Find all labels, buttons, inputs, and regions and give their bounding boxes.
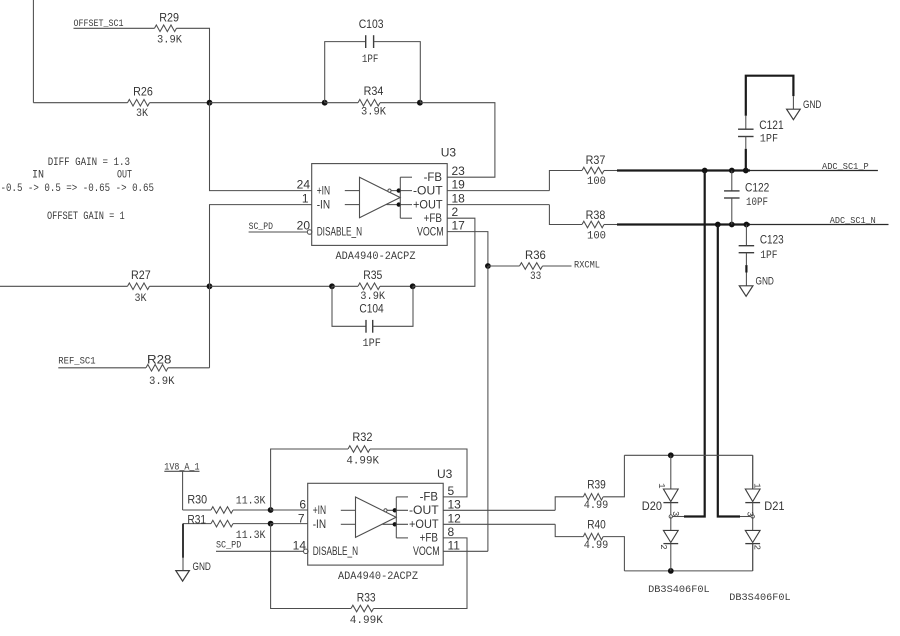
svg-text:7: 7: [298, 511, 305, 525]
wire R32 to -FB pin 5: [370, 449, 467, 497]
wire REF_SC1 to R28: [58, 367, 146, 369]
svg-text:4.99K: 4.99K: [346, 456, 379, 468]
svg-text:1: 1: [752, 483, 762, 488]
wire ADC_SC1_P bold: [617, 169, 750, 171]
wire R29 to node: [177, 28, 210, 102]
svg-text:R39: R39: [587, 478, 606, 492]
resistor R33: [351, 605, 374, 612]
svg-text:3.9K: 3.9K: [361, 107, 386, 119]
wire to R40: [555, 524, 583, 536]
lead to GND: [745, 273, 747, 286]
svg-text:R32: R32: [352, 430, 372, 444]
svg-text:3K: 3K: [136, 108, 148, 120]
wire: [604, 170, 617, 172]
svg-text:1PF: 1PF: [362, 54, 379, 66]
lead C123 bottom: [745, 253, 747, 265]
svg-text:C121: C121: [759, 118, 784, 132]
svg-text:RXCML: RXCML: [574, 261, 600, 272]
svg-text:-FB: -FB: [424, 172, 443, 184]
junction pin7 node: [268, 521, 274, 527]
svg-text:+OUT: +OUT: [413, 199, 443, 211]
junction N / C123: [744, 222, 750, 228]
wire to R31: [183, 523, 211, 525]
wire bottom rail: [624, 570, 752, 572]
junction pin6 node: [268, 507, 274, 513]
resistor R28: [146, 365, 168, 372]
junction top rail / D20: [668, 452, 674, 458]
wire: [380, 102, 420, 104]
svg-text:-OUT: -OUT: [409, 505, 439, 517]
wire R33 to +FB pin 8: [374, 538, 468, 609]
svg-text:2: 2: [658, 544, 668, 549]
wire node to +IN pin 6: [271, 509, 308, 511]
resistor R31: [211, 520, 233, 527]
svg-text:3K: 3K: [135, 293, 147, 305]
svg-text:ADC_SC1_N: ADC_SC1_N: [830, 215, 876, 226]
svg-text:DB3S406F0L: DB3S406F0L: [648, 584, 710, 596]
svg-text:C123: C123: [760, 233, 784, 247]
svg-text:DISABLE_N: DISABLE_N: [317, 226, 362, 238]
wire node to R32: [271, 449, 348, 510]
wire -OUT pin 19: [447, 190, 549, 192]
svg-text:REF_SC1: REF_SC1: [58, 356, 95, 368]
wire R36 to RXCML: [543, 265, 572, 267]
ground (lower left): [176, 571, 190, 582]
capacitor C103: [365, 35, 367, 48]
junction node +IN: [207, 100, 213, 106]
wire: [325, 102, 358, 104]
ground (top right): [787, 109, 801, 120]
svg-text:+FB: +FB: [424, 213, 443, 225]
wire P to D20 pin3 bold: [684, 171, 705, 517]
wire C104 right: [373, 286, 413, 326]
svg-text:19: 19: [452, 178, 466, 192]
svg-text:5: 5: [448, 484, 455, 498]
wire R31 to node: [233, 523, 271, 525]
wire ADC_SC1_N bold: [617, 223, 750, 225]
junction R35 right: [410, 283, 416, 289]
wire VOCM vertical to lower U3 pin 11: [487, 266, 489, 551]
wire R39 to top rail: [603, 455, 624, 497]
wire C103 left: [325, 42, 366, 103]
svg-text:R31: R31: [187, 512, 206, 526]
junction R35 left: [329, 283, 335, 289]
pin 20 inversion bubble: [307, 230, 312, 235]
junction P / C122: [729, 168, 735, 174]
svg-text:2: 2: [752, 545, 762, 550]
lead D20 pin3: [673, 516, 684, 518]
op-amp U3 (upper) ADA4940-2ACPZ: [312, 164, 448, 246]
resistor R30: [211, 507, 233, 514]
wire node to R35: [210, 285, 333, 287]
diode D20 DB3S406F0L: [656, 455, 680, 571]
wire R30 to node: [233, 509, 271, 511]
svg-text:R28: R28: [147, 352, 172, 366]
wire C104 left: [332, 286, 366, 326]
svg-text:23: 23: [452, 164, 466, 178]
svg-text:3: 3: [744, 511, 754, 516]
resistor R29: [155, 25, 177, 32]
svg-text:3.9K: 3.9K: [149, 376, 175, 388]
wire: left input vertical: [32, 0, 34, 103]
svg-text:R38: R38: [586, 208, 606, 222]
svg-text:SC_PD: SC_PD: [216, 539, 241, 551]
svg-text:GND: GND: [193, 561, 211, 573]
svg-text:18: 18: [452, 192, 466, 206]
svg-text:3.9K: 3.9K: [157, 34, 182, 46]
svg-text:4.99K: 4.99K: [350, 615, 383, 627]
wire C121 to P bold: [745, 149, 747, 171]
net 1V8_A_1 underline: [164, 470, 199, 472]
svg-text:+IN: +IN: [313, 505, 326, 517]
svg-text:R37: R37: [586, 153, 606, 167]
wire to R38: [549, 205, 582, 225]
svg-text:D20: D20: [642, 499, 662, 513]
op-amp U3 (lower) ADA4940-2ACPZ: [308, 483, 444, 565]
wire R31 to GND: [182, 524, 184, 558]
svg-text:13: 13: [448, 497, 462, 511]
svg-text:4.99: 4.99: [584, 500, 609, 512]
capacitor C104: [365, 320, 367, 333]
svg-text:R26: R26: [133, 85, 153, 99]
ground (below C123): [739, 286, 753, 297]
svg-text:R29: R29: [159, 10, 179, 24]
wire: [332, 285, 358, 287]
svg-text:R33: R33: [357, 591, 376, 605]
svg-text:10PF: 10PF: [746, 197, 768, 209]
svg-text:ADA4940-2ACPZ: ADA4940-2ACPZ: [338, 571, 418, 583]
wire to R39: [555, 497, 583, 511]
svg-text:OFFSET_SC1: OFFSET_SC1: [74, 18, 124, 30]
junction R34 left: [322, 100, 328, 106]
wire VOCM pin 17: [447, 232, 488, 266]
svg-text:12: 12: [448, 511, 462, 525]
wire to R36: [488, 265, 520, 267]
wire +OUT pin 12: [443, 523, 555, 525]
wire R26 to node: [150, 102, 210, 104]
wire node to -IN pin 7: [271, 523, 308, 525]
lead C121 bottom: [745, 137, 747, 149]
resistor R37: [582, 167, 604, 174]
svg-text:4.99: 4.99: [584, 540, 609, 552]
svg-text:R36: R36: [525, 248, 546, 262]
svg-text:-FB: -FB: [420, 492, 439, 504]
svg-text:ADA4940-2ACPZ: ADA4940-2ACPZ: [336, 251, 416, 263]
junction N / C122: [729, 222, 735, 228]
resistor R39: [583, 494, 603, 501]
svg-text:VOCM: VOCM: [417, 226, 444, 238]
svg-text:-0.5 -> 0.5 => -0.65 -> 0.65: -0.5 -> 0.5 => -0.65 -> 0.65: [1, 183, 155, 195]
wire to R26: [33, 102, 127, 104]
svg-text:17: 17: [452, 219, 466, 233]
svg-text:OUT: OUT: [117, 169, 132, 181]
wire to R37: [549, 171, 582, 191]
svg-text:DISABLE_N: DISABLE_N: [313, 546, 358, 558]
wire node to R34: [210, 102, 325, 104]
wire feedback to -FB pin 23: [420, 103, 495, 178]
resistor R35: [358, 283, 380, 290]
capacitor C121: [738, 128, 754, 130]
wire N to D21 pin3 bold: [718, 225, 740, 517]
svg-text:20: 20: [297, 219, 311, 233]
svg-text:33: 33: [530, 271, 541, 283]
wire ADC_SC1_P: [750, 170, 878, 172]
lead D21 pin3: [740, 516, 751, 518]
svg-text:R35: R35: [363, 268, 382, 282]
wire SC_PD to DISABLE_N lower: [216, 550, 304, 552]
junction R34 right: [417, 100, 423, 106]
svg-text:+IN: +IN: [317, 185, 330, 197]
wire R40 to bottom rail: [603, 537, 624, 571]
svg-text:ADC_SC1_P: ADC_SC1_P: [822, 161, 869, 172]
svg-text:SC_PD: SC_PD: [249, 221, 273, 233]
resistor R34: [358, 99, 380, 106]
resistor R27: [128, 283, 150, 290]
wire ADC_SC1_N: [750, 224, 889, 226]
wire SC_PD to DISABLE_N: [249, 231, 308, 233]
wire: [380, 285, 413, 287]
svg-text:-IN: -IN: [317, 199, 330, 211]
wire 1V8 down to R30: [182, 471, 184, 510]
junction bottom rail / D20: [668, 568, 674, 574]
svg-text:1: 1: [656, 483, 666, 488]
lead C121 top: [745, 116, 747, 129]
wire: [604, 224, 617, 226]
svg-text:3: 3: [670, 511, 680, 516]
svg-text:11.3K: 11.3K: [236, 496, 266, 508]
svg-text:IN: IN: [32, 169, 44, 181]
lead C122 top: [731, 171, 733, 191]
svg-text:-IN: -IN: [313, 519, 326, 531]
svg-text:+FB: +FB: [420, 533, 439, 545]
svg-text:C103: C103: [359, 17, 384, 31]
wire stub bold: [745, 265, 747, 272]
svg-text:2: 2: [452, 205, 459, 219]
junction VOCM node: [485, 263, 491, 269]
lead GND: [182, 558, 184, 571]
svg-text:6: 6: [299, 497, 306, 511]
svg-text:GND: GND: [803, 99, 821, 111]
junction -IN node: [207, 283, 213, 289]
svg-text:DB3S406F0L: DB3S406F0L: [729, 592, 790, 604]
lead D21 pin2: [752, 543, 754, 571]
svg-text:R34: R34: [364, 84, 384, 98]
wire C121 to GND bold: [746, 76, 794, 116]
svg-text:1PF: 1PF: [760, 134, 778, 146]
resistor R26: [128, 99, 150, 106]
svg-text:R40: R40: [587, 517, 606, 531]
lead D21 pin1: [752, 455, 754, 489]
wire to R30: [183, 509, 211, 511]
junction P / diode column: [702, 168, 708, 174]
lead C123 top: [745, 225, 747, 246]
resistor R38: [582, 221, 604, 228]
resistor R40: [583, 533, 603, 540]
lead GND: [792, 96, 794, 109]
wire node to -IN pin 1: [210, 205, 312, 287]
capacitor C122: [724, 190, 740, 192]
wire node to R33: [271, 524, 351, 609]
svg-text:OFFSET GAIN = 1: OFFSET GAIN = 1: [47, 211, 125, 223]
wire -OUT pin 13: [443, 509, 555, 511]
resistor R32: [348, 446, 370, 453]
svg-text:1PF: 1PF: [363, 338, 381, 350]
junction P / C121: [743, 168, 749, 174]
diode D21 DB3S406F0L: [744, 455, 761, 571]
resistor R36: [520, 263, 543, 270]
svg-text:U3: U3: [437, 467, 453, 481]
svg-text:-OUT: -OUT: [413, 185, 443, 197]
wire R28 to node: [168, 367, 210, 369]
svg-text:VOCM: VOCM: [413, 546, 440, 558]
wire +OUT pin 18: [447, 204, 549, 206]
junction N / diode column: [715, 222, 721, 228]
wire top rail: [624, 454, 752, 456]
wire node down to R28: [209, 286, 211, 368]
svg-text:1PF: 1PF: [760, 250, 777, 262]
svg-text:24: 24: [297, 178, 311, 192]
svg-text:100: 100: [587, 231, 606, 243]
svg-text:R27: R27: [131, 268, 151, 282]
wire left edge to R27: [0, 285, 128, 287]
svg-text:DIFF GAIN = 1.3: DIFF GAIN = 1.3: [48, 157, 130, 169]
svg-text:GND: GND: [756, 275, 774, 287]
pin 14 inversion bubble: [304, 549, 309, 554]
capacitor C123: [739, 245, 755, 247]
lead C122 bottom: [731, 198, 733, 225]
svg-text:8: 8: [448, 525, 455, 539]
wire OFFSET_SC1 to R29: [74, 27, 155, 29]
svg-text:11: 11: [448, 538, 461, 552]
svg-text:+OUT: +OUT: [409, 519, 439, 531]
svg-text:1: 1: [302, 192, 309, 206]
wire VOCM pin 11: [443, 550, 488, 552]
svg-text:D21: D21: [764, 499, 784, 513]
wire R27 to node: [150, 285, 210, 287]
svg-text:C122: C122: [745, 181, 770, 195]
wire +FB pin 2 feedback: [413, 218, 475, 286]
svg-text:U3: U3: [441, 145, 457, 159]
svg-text:C104: C104: [359, 301, 384, 315]
svg-text:R30: R30: [187, 493, 207, 507]
wire node to +IN pin 24: [210, 103, 312, 191]
svg-text:100: 100: [587, 176, 606, 188]
svg-text:14: 14: [293, 538, 307, 552]
wire C103 right: [374, 42, 421, 103]
